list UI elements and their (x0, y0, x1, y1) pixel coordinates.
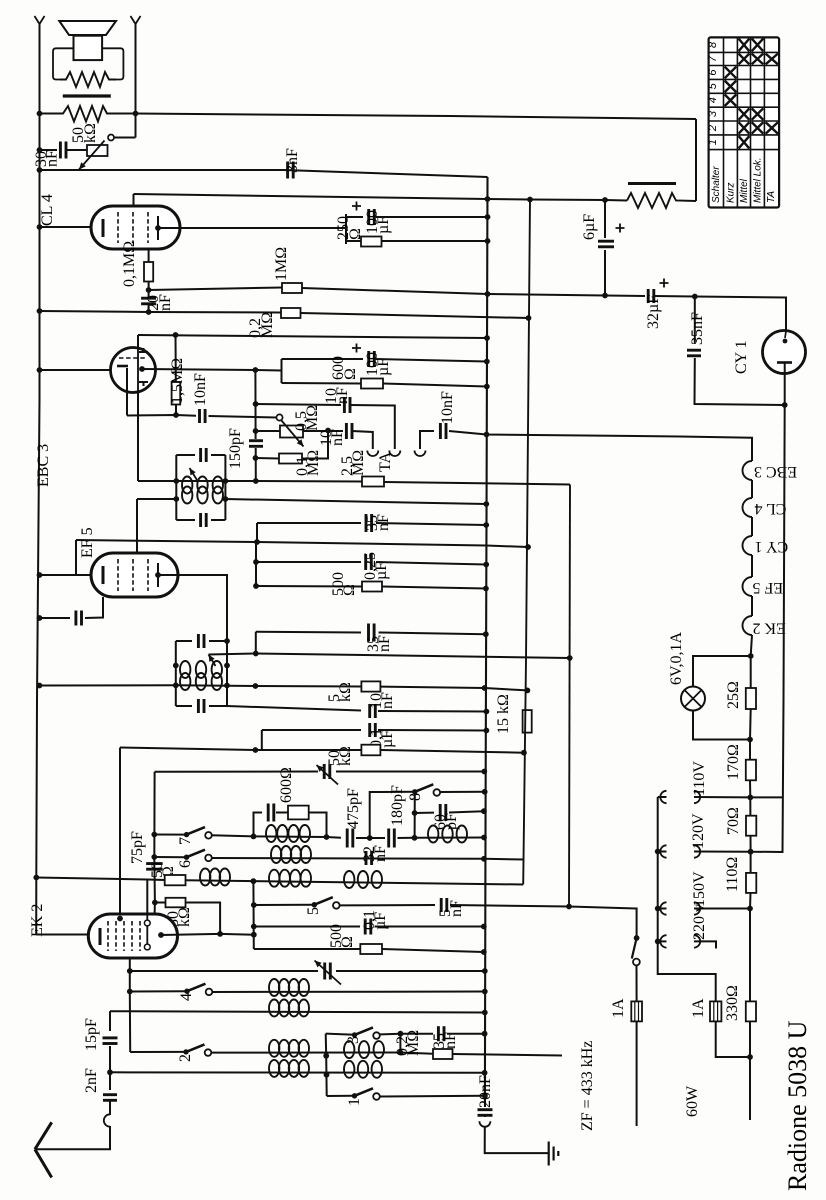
wire row1052 mid (211, 1052, 400, 1054)
label 3nF (284, 148, 301, 173)
capacitor 35nF (2) (369, 624, 375, 642)
hook selector left 2 (660, 845, 666, 857)
wire 60pF branch (415, 812, 434, 814)
junction tap row/riser (253, 651, 259, 657)
wire EK2 cathode column (129, 958, 131, 1052)
svg-text:nF: nF (372, 845, 389, 862)
switch 1 (352, 1088, 380, 1099)
junction column/row431 (253, 428, 259, 434)
capacitor 0,1uF (osc) (370, 723, 376, 737)
table X mark switch 7 col 2 (739, 54, 750, 65)
trimmer arrow 2 (315, 961, 342, 985)
label 0,2MOhm-2 (394, 1030, 422, 1056)
junction bus2/row312 (526, 315, 532, 321)
wire row618 to EF5 (85, 597, 103, 618)
wire EF5 grid-cap riser (136, 499, 138, 553)
wire row1052 left (130, 1051, 186, 1053)
capacitor 35nF (3) (438, 1026, 444, 1041)
wire EBC3 grid (40, 369, 111, 371)
wire row949 to bus1 (382, 949, 484, 952)
label switch 2 (177, 1054, 194, 1062)
label 30nF (33, 150, 61, 167)
wire row750 to 50k (255, 749, 361, 751)
wire sel l2 (658, 851, 667, 853)
wire heater 2 (751, 517, 753, 536)
junction row542/cathode riser (254, 539, 260, 545)
wire hook to 10nF d (420, 431, 434, 449)
svg-text:MΩ: MΩ (259, 312, 276, 338)
capacitor 0,1uF (EK2) (365, 919, 371, 935)
svg-text:1: 1 (707, 139, 719, 145)
hook selector left 3 (660, 902, 666, 914)
wire sel l3 (658, 908, 667, 910)
junction bus3/mains row (566, 904, 572, 910)
CY1 anode lead (785, 331, 786, 338)
wire to 475pF (327, 836, 342, 839)
label 500 Ohm EK2 (328, 924, 356, 948)
resistor 15 kOhm (on bus2) (523, 710, 532, 733)
hook selector left 1 (660, 791, 666, 803)
table X mark switch 7 col 3 (752, 54, 764, 65)
junction riser/row586 (253, 583, 259, 589)
switch 5 (312, 897, 340, 909)
label 1A right (690, 998, 707, 1018)
resistor 70 Ohm (746, 816, 756, 836)
junction IF1 secondary left (173, 496, 179, 502)
capacitor 10nF (b) (344, 397, 350, 413)
junction IF2 primary right (224, 663, 230, 669)
label 35nF rect (689, 312, 706, 345)
capacitor 32uF electrolytic (648, 289, 654, 303)
wire row431 left (256, 430, 280, 432)
tube EF5 (IF pentode) (91, 553, 178, 597)
svg-text:15pF: 15pF (83, 1018, 100, 1051)
wire sel l1 (658, 796, 667, 798)
wire 50k row left (155, 902, 166, 904)
wire bus2 (B+ bus) (523, 200, 530, 885)
capacitor 15pF (103, 1038, 118, 1044)
table X mark switch 2 col 3 (752, 122, 764, 134)
table X mark switch 5 col 1 (725, 81, 737, 93)
plus sign 32uF (660, 279, 669, 288)
wire row290 to 32uF (302, 288, 645, 296)
wire 170ohm to 110V tap (749, 780, 751, 797)
wire heater 3 (751, 555, 753, 577)
wire row404 to hook (350, 405, 395, 449)
fuse 1A (left) (631, 1001, 642, 1021)
wire row750 left (120, 748, 255, 751)
transformer primary winding (zigzag) (60, 72, 116, 87)
label 20nF ground (477, 1075, 494, 1108)
svg-text:3: 3 (707, 110, 719, 117)
svg-text:0,1MΩ: 0,1MΩ (121, 241, 138, 287)
label 110 Ohm (724, 857, 741, 892)
wire row523 riser (256, 523, 258, 542)
svg-text:Ω: Ω (341, 584, 358, 596)
wire IF1 right riser (224, 455, 226, 520)
antenna symbol (35, 1122, 52, 1177)
wire bus1 (ground bus) (485, 177, 488, 1107)
label switch 8 (407, 793, 424, 801)
resistor 600 Ohm (361, 379, 383, 389)
label 32nF (361, 845, 389, 862)
svg-text:1,5MΩ: 1,5MΩ (169, 358, 186, 404)
svg-text:220 v: 220 v (691, 904, 708, 940)
svg-text:10nF: 10nF (192, 373, 209, 406)
svg-text:6: 6 (177, 860, 194, 868)
switch 3 (352, 1027, 380, 1038)
label 1,5MOhm (169, 358, 186, 404)
plus sign 100uF (352, 202, 361, 211)
label 32uF (645, 295, 662, 329)
svg-text:Ω: Ω (342, 368, 359, 380)
label 1A left (610, 998, 627, 1018)
wire switch5 to 5nF (340, 904, 436, 906)
resistor 50 kOhm (osc) (361, 745, 380, 756)
junction 6uF riser (602, 197, 608, 203)
junction bus1/row1012 (482, 1010, 488, 1016)
junction block right (324, 834, 330, 840)
svg-text:Schalter: Schalter (711, 166, 722, 203)
wire to 170ohm (749, 740, 751, 760)
junction bus1/row991 (482, 989, 488, 995)
label 60W (684, 1085, 701, 1117)
wire row1033 left (326, 1034, 355, 1035)
svg-text:nF: nF (376, 635, 393, 652)
wire rail to 30nF (40, 149, 58, 151)
wire pot wiper to speaker lead (114, 137, 136, 139)
wire switch1/row1033 riser (326, 1034, 327, 1096)
wire B+ screen row to choke (134, 194, 628, 201)
wire speaker right lead (135, 24, 137, 138)
junction fuse2/chain (747, 1054, 753, 1060)
label 100uF (364, 210, 392, 234)
EF5 grids (dashed) (117, 559, 119, 591)
junction 0,1M/1M row (146, 287, 152, 293)
junction 1,5M top (173, 332, 179, 338)
label 5nF (437, 900, 465, 917)
EK2 anode dot (158, 932, 164, 938)
capacitor 6uF electrolytic (598, 241, 614, 247)
junction mains switch (634, 935, 640, 941)
wire row971 (130, 970, 318, 972)
coil IF1 primary (182, 477, 223, 494)
resistor 0,2 MOhm (281, 308, 301, 318)
resistor 600 Ohm (osc) (288, 806, 309, 820)
capacitor 30nF (60, 142, 66, 159)
junction column/row404 (253, 401, 259, 407)
svg-text:nF: nF (329, 429, 346, 446)
wire row335 (EBC3 top) to bus1 (138, 335, 487, 338)
wire row458 left (256, 457, 280, 460)
wire switch5 row left (254, 904, 314, 906)
svg-text:nF: nF (448, 900, 465, 917)
table X mark switch 8 col 2 (739, 39, 750, 52)
junction IF2 sec left (173, 682, 179, 688)
switch table (709, 37, 780, 207)
wire sel l4 (658, 940, 667, 942)
table X mark switch 3 col 3 (752, 108, 764, 119)
junction rail/3nF row (37, 167, 43, 173)
svg-text:1MΩ: 1MΩ (273, 247, 290, 281)
svg-text:Mittel Lok.: Mittel Lok. (753, 157, 764, 203)
wire row857 to bus2 (484, 858, 524, 861)
wire row481 to 2,5M (256, 480, 362, 483)
junction rail/row618 (37, 615, 43, 621)
wire row878 (36, 878, 164, 881)
junction row1033/riser (398, 1031, 404, 1037)
wire CL4 screen exit (133, 194, 135, 206)
junction EK2 g2 top (117, 916, 123, 922)
wire switch6 row (154, 856, 186, 858)
junction IF1 primary right (223, 478, 229, 484)
svg-text:2: 2 (177, 1054, 194, 1062)
wire row750 to bus2 (380, 750, 524, 753)
wire 110V tap extension (750, 796, 782, 798)
plus sign 100uF-2 (352, 344, 361, 353)
junction column254/0,1uF row (251, 924, 257, 930)
junction riser/row562 (253, 559, 259, 565)
capacitor 5nF (441, 898, 447, 912)
wire lamp branch bottom (693, 711, 750, 740)
output transformer box (53, 48, 123, 79)
capacitor 150pF (249, 441, 263, 447)
label 2,5MOhm (339, 450, 367, 476)
wire detector column upper (254, 370, 256, 439)
table X mark switch 2 col 2 (739, 122, 750, 134)
wire switch8 riser+row (370, 792, 415, 838)
CY1 cathode bar (777, 361, 792, 364)
capacitor 20nF (141, 298, 156, 304)
label 0,1uF EK2 (361, 910, 389, 930)
svg-text:nF: nF (379, 692, 396, 709)
EBC3 grid (dashed) (119, 357, 146, 359)
fuse left inner lines (634, 1001, 636, 1021)
wire to 35nF (694, 297, 696, 345)
svg-text:µF: µF (375, 216, 392, 234)
wire heater 1 (751, 480, 753, 498)
wire 600ohm branch (282, 382, 362, 385)
capacitor IF2 secondary (198, 699, 204, 713)
junction bus1/row730 (484, 728, 490, 734)
wire 35nF to bus1 (447, 1033, 485, 1035)
svg-text:1A: 1A (690, 998, 707, 1018)
junction rail/EF5 grid (37, 572, 43, 578)
coil osc grid b (269, 1000, 309, 1017)
junction bus1/switch1 (482, 1093, 488, 1099)
CL4 anode electrode (157, 216, 159, 240)
junction bus1/row771 (481, 769, 487, 775)
junction bus1/row1033 (482, 1031, 488, 1037)
wire 70ohm to 120V tap (750, 836, 752, 852)
coil osc (600ohm block) (266, 825, 310, 842)
junction cath/row991 (127, 989, 133, 995)
junction col155/50k row (152, 900, 158, 906)
svg-text:5: 5 (305, 907, 322, 915)
label 0,1uF osc (368, 728, 396, 748)
junction IF1 primary left (173, 478, 179, 484)
svg-text:4: 4 (707, 97, 719, 103)
svg-text:EF 5: EF 5 (79, 527, 96, 558)
EBC3 diode plate bottom (139, 382, 148, 386)
svg-text:170Ω: 170Ω (725, 744, 742, 780)
plus sign 6uF (616, 224, 625, 233)
label heater EK2 (753, 620, 786, 637)
wire CL4 anode resistor feed (148, 249, 150, 262)
label 0,2MOhm (247, 312, 276, 338)
speaker magnet body (74, 36, 103, 60)
svg-text:Kurz: Kurz (726, 182, 737, 203)
wire bus3 (mains feed) (569, 485, 570, 907)
EF5 anode electrode (157, 563, 159, 587)
junction nodeA (367, 835, 373, 841)
wire 10nFc to hook1 (352, 431, 373, 449)
label 50kOhm osc (326, 746, 354, 766)
svg-text:4: 4 (178, 993, 195, 1001)
wire row686 to bus2 (380, 687, 527, 691)
potentiometer 50kOhm (volume) (87, 145, 108, 156)
wire nodeA to 180pF (370, 837, 385, 839)
junction sel column 2 (655, 849, 661, 855)
junction speaker left/row113 (37, 111, 43, 117)
wire to 600ohm (276, 812, 288, 814)
label 5kOhm (326, 682, 354, 702)
ground lead hook (479, 1121, 490, 1127)
wire switch3 to riser (380, 1033, 401, 1036)
tube EK2 (octode mixer) (88, 914, 177, 958)
label 10nF heater (439, 391, 456, 424)
svg-text:110Ω: 110Ω (724, 857, 741, 892)
coil antenna sec b (344, 1061, 382, 1078)
junction bus1/60pF (481, 808, 487, 814)
wire row884 to bus2 (186, 880, 524, 884)
CY1 anode dot (783, 339, 788, 344)
wire IF1 top branch r (211, 454, 225, 456)
wire cathode riser 542-586 (255, 542, 257, 586)
svg-text:TA: TA (766, 191, 777, 203)
coil IF2 primary (180, 661, 222, 678)
svg-text:6µF: 6µF (581, 214, 598, 240)
label tube EF 5 (79, 527, 96, 558)
label 2nF (83, 1068, 100, 1093)
junction bus2/row686 (525, 688, 531, 694)
junction antenna/row1072 (107, 1069, 113, 1075)
svg-text:MΩ: MΩ (405, 1030, 422, 1056)
junction column254/switch5 row (251, 902, 257, 908)
label switch 7 (177, 837, 194, 845)
wire row686 to 5k (255, 685, 361, 688)
wire 15pF to 2nF (109, 1046, 111, 1090)
svg-text:CY 1: CY 1 (755, 538, 789, 555)
junction lamp bottom (747, 737, 753, 743)
svg-text:10nF: 10nF (439, 391, 456, 424)
wire left rail (AVC/grid bus) (36, 24, 39, 935)
junction bus1/switch8 (482, 789, 488, 795)
resistor 330 Ohm (746, 1001, 756, 1021)
svg-text:kΩ: kΩ (82, 123, 99, 143)
label 220V (691, 904, 708, 940)
wire coil row to bus1 (415, 837, 485, 839)
junction IF2 primary left (173, 663, 179, 669)
junction bus1/row499 (483, 501, 489, 507)
junction bus1/row1072 (482, 1070, 488, 1076)
wire row730 to bus1 (378, 729, 486, 732)
wire 1,5M feed (175, 335, 177, 382)
resistor 0,1 MOhm (detector) (279, 454, 302, 464)
label 35nF-3 (431, 1032, 459, 1049)
junction anode/detector column (253, 367, 259, 373)
switch 7 (184, 827, 212, 839)
tube CL4 (output pentode) (91, 206, 180, 249)
svg-text:EK 2: EK 2 (29, 904, 46, 937)
junction row750/column (253, 747, 259, 753)
resistor 250 Ohm (361, 237, 382, 247)
capacitor 35nF (1) (366, 514, 372, 532)
wire 600ohm block riser/top (254, 813, 263, 837)
svg-text:Ω: Ω (339, 936, 356, 948)
mains switch arm (632, 938, 637, 959)
label switch 3 (345, 1036, 362, 1044)
junction bus1/row926 (481, 924, 487, 930)
wire EBC3 cathode lead (126, 368, 128, 416)
ground symbol (549, 1142, 559, 1166)
wire 250/100uF riser (345, 214, 347, 244)
wire row586 to bus1 (382, 587, 486, 589)
svg-text:µF: µF (379, 730, 396, 748)
svg-text:MΩ: MΩ (304, 405, 321, 431)
label 180pF (389, 785, 406, 826)
table X mark switch 4 col 1 (725, 95, 737, 107)
wire row686 mid (176, 684, 256, 687)
EBC3 diode plate top (139, 348, 148, 352)
wire row632 riser (255, 632, 257, 654)
wire 0,1M to 20nF (148, 282, 150, 299)
wire 110V tap (694, 796, 750, 798)
svg-text:150pF: 150pF (227, 428, 244, 469)
wire tap row 655 to bus3 (209, 654, 570, 659)
wire 6uF riser top (604, 200, 606, 238)
capacitor 35nF (rectifier) (687, 350, 701, 356)
wire 110ohm to 150V tap (749, 893, 752, 909)
label 600 Ohm (330, 356, 359, 380)
wire row481 mid (176, 480, 256, 482)
0,5M wiper arrow (282, 421, 304, 447)
heater EBC3 bump (743, 461, 753, 480)
label 35nF-1 (364, 514, 392, 531)
junction column/row458 (253, 455, 259, 461)
wire IF2 right riser (226, 641, 228, 706)
wire row542 (EF5 screen) to bus2 (76, 540, 528, 547)
capacitor 0,25uF (366, 554, 372, 570)
svg-text:150V: 150V (691, 871, 708, 907)
speaker left lead hook (35, 16, 45, 24)
wire row730 left (262, 729, 361, 731)
CL4 grids (dashed) (117, 212, 119, 243)
capacitor EF5 grid (76, 611, 82, 626)
wire 15pF top (109, 1011, 111, 1031)
CL4 anode dot (155, 225, 161, 231)
fuse right inner lines (713, 1001, 715, 1021)
junction cath/row971 (127, 968, 133, 974)
wire 50k to anode row (186, 903, 221, 934)
svg-text:25Ω: 25Ω (725, 681, 742, 709)
hook 110V (694, 791, 700, 803)
wire heater 4 (751, 596, 753, 616)
label switch 4 (178, 993, 195, 1001)
junction bus1/100uF-2 (484, 359, 490, 365)
wire row1052 right stub (453, 1054, 563, 1056)
junction row481/detector column (253, 478, 259, 484)
